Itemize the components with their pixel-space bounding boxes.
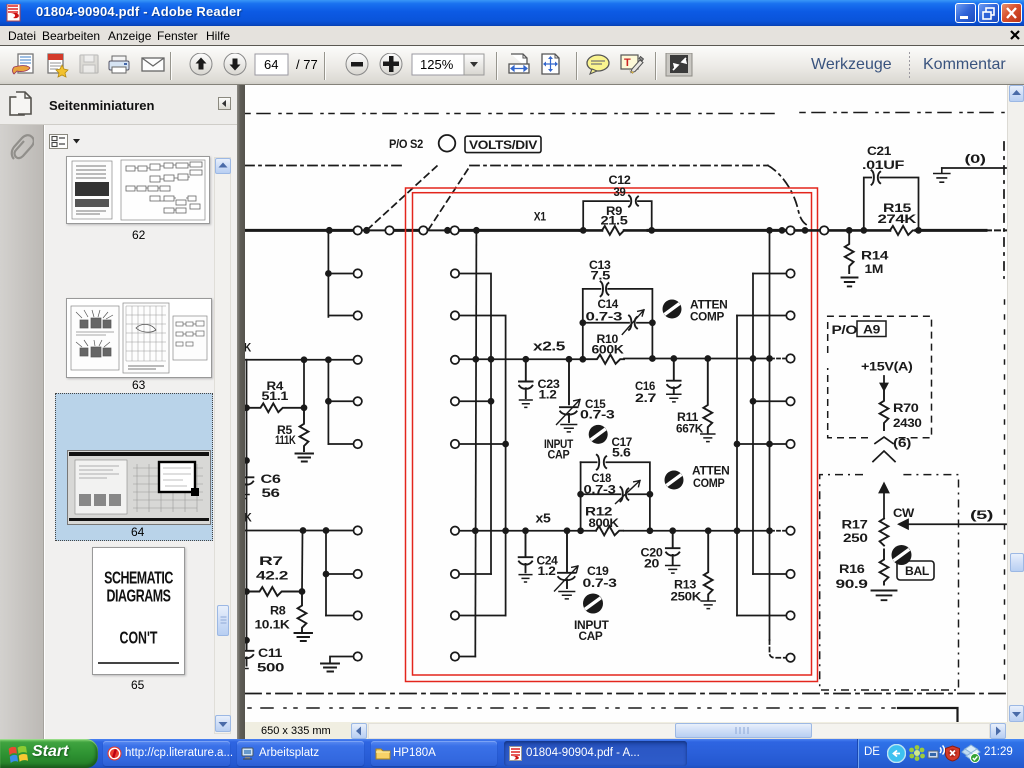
- svg-text:1M: 1M: [865, 262, 884, 276]
- email icon: [142, 58, 164, 71]
- junction x5 row at box left: [578, 528, 583, 533]
- junction C14 right: [650, 320, 655, 325]
- resistor R10: [583, 355, 624, 364]
- S2 wiper dot left: [364, 228, 369, 233]
- junction row5 rail C: [503, 442, 508, 447]
- svg-text:COMP: COMP: [693, 476, 725, 490]
- wire: row8 stub to rail C end: [459, 615, 505, 617]
- svg-text:39: 39: [614, 185, 626, 199]
- junction x5 row at RC: [735, 528, 740, 533]
- wire: bus segment through R9: [580, 229, 648, 232]
- junction C21 right on bus: [916, 228, 921, 233]
- wire: left edge rail: [246, 360, 248, 648]
- wire: ground stub to contact row9 left: [330, 657, 354, 663]
- ground below C23: [520, 400, 533, 407]
- wire: stub to contact row8 left: [326, 615, 354, 617]
- wire: RC stub row8 right: [737, 615, 786, 617]
- page field: [255, 54, 288, 75]
- resistor R7: [247, 587, 302, 596]
- ground below C20: [666, 566, 680, 574]
- wire: right rail RC: [736, 316, 738, 616]
- svg-text:R8: R8: [270, 604, 286, 618]
- thumb 65: [92, 547, 185, 675]
- switch boundary dash-dot line left: [245, 165, 402, 167]
- junction row4 at RB: [751, 399, 756, 404]
- wire: x2.5 feed row from left circuit: [245, 359, 354, 361]
- junction x2.5 row at RB: [751, 356, 756, 361]
- bottom boundary dash-dot line: [245, 693, 1006, 695]
- resistor R14: [845, 230, 854, 273]
- junction R4 row at left edge: [244, 405, 249, 410]
- svg-text:274K: 274K: [878, 212, 917, 226]
- svg-text:CAP: CAP: [548, 448, 570, 462]
- contact circle right row7: [786, 570, 794, 578]
- junction R11: [705, 356, 710, 361]
- wire: RC stub row2 right: [737, 315, 786, 317]
- wire: C14 middle branch: [583, 322, 653, 324]
- wire: rail A center: [475, 230, 476, 656]
- svg-text:250: 250: [843, 531, 868, 545]
- A9 designator box: [857, 321, 886, 337]
- S2 wiper contact circle 1 on bus: [354, 226, 362, 234]
- junction C6 at left edge: [244, 458, 249, 463]
- wire: row1 stub to rail B: [459, 274, 491, 575]
- contact circle right row4: [786, 397, 794, 405]
- wire: x5 row: [459, 530, 770, 532]
- switch S2 dashed wiper line A: [368, 165, 439, 230]
- svg-text:X1: X1: [534, 210, 546, 224]
- wire: RB stub row7 right: [753, 573, 786, 575]
- contact circle left row2: [354, 311, 362, 319]
- S2 wiper contact circle 4 on bus: [451, 226, 459, 234]
- ground below R5: [296, 454, 314, 462]
- wire: C21 parallel loop: [864, 178, 919, 231]
- zoom in: [380, 53, 402, 75]
- contact circle left row8: [354, 611, 362, 619]
- capacitor C24: [519, 531, 533, 573]
- junction x5 at rail C: [503, 528, 508, 533]
- trimmer arrow C14: [622, 310, 644, 335]
- trimmer arrow C19: [555, 566, 579, 591]
- ground below C15: [561, 425, 577, 432]
- svg-text:P/O S2: P/O S2: [389, 137, 423, 151]
- junction C19: [565, 528, 570, 533]
- top page boundary dotted line: [245, 113, 1005, 114]
- contact circle right row6: [786, 527, 794, 535]
- svg-text:600K: 600K: [592, 343, 624, 357]
- wire: bus to C21 section: [828, 229, 890, 232]
- junction R7 row at left edge: [244, 589, 249, 594]
- svg-text:COMP: COMP: [690, 310, 724, 324]
- svg-text:VOLTS/DIV: VOLTS/DIV: [469, 138, 538, 152]
- contact circle right row2: [786, 311, 794, 319]
- connector chevron 6 upper: [875, 437, 893, 444]
- ground below R13: [701, 601, 715, 609]
- resistor R9: [602, 226, 624, 235]
- variable capacitor C15: [560, 359, 578, 422]
- fit page icon: [542, 54, 559, 74]
- contact circle left row9: [354, 652, 362, 660]
- wire: x5 feed row from left circuit: [245, 530, 354, 532]
- svg-text:20: 20: [644, 557, 660, 571]
- svg-text:125%: 125%: [420, 57, 454, 72]
- svg-text:800K: 800K: [589, 516, 619, 530]
- svg-text:0.7-3: 0.7-3: [583, 576, 618, 590]
- options button: [49, 134, 68, 149]
- svg-text:C21: C21: [867, 144, 891, 158]
- variable capacitor C18: [620, 487, 628, 501]
- svg-text:10.1K: 10.1K: [255, 618, 290, 632]
- svg-text:667K: 667K: [676, 422, 703, 436]
- junction x2.5 feed at left rail: [326, 357, 331, 362]
- ground below C19: [559, 592, 575, 599]
- resistor R11: [703, 359, 712, 433]
- contact circle left row6: [354, 526, 362, 534]
- contact circle mid row3: [451, 356, 459, 364]
- junction C24: [523, 528, 528, 533]
- print icon: [109, 56, 129, 73]
- junction dot on bus: [445, 228, 450, 233]
- wire: node 5 wiper line: [899, 520, 1006, 529]
- wire: C17 top branch: [581, 462, 650, 530]
- svg-text:1.2: 1.2: [539, 388, 558, 402]
- svg-text:CAP: CAP: [579, 629, 603, 643]
- svg-text:21.5: 21.5: [601, 214, 629, 228]
- wire: RB stub row1 right: [753, 273, 786, 275]
- contact circle mid row9: [451, 652, 459, 660]
- ground for node 0: [934, 168, 950, 182]
- svg-text:x2.5: x2.5: [533, 339, 565, 354]
- contact circle right row5: [786, 440, 794, 448]
- wire: row9 stub to rail A end: [459, 656, 475, 658]
- contact circle left row4: [354, 397, 362, 405]
- dash-dot vertical right margin lower: [1004, 300, 1006, 680]
- svg-text:56: 56: [262, 486, 281, 500]
- junction C21 left on bus: [861, 228, 866, 233]
- junction x5 at rail A: [473, 528, 478, 533]
- trimmer symbol INPUT CAP x2.5: [589, 425, 608, 444]
- ground below C16: [667, 394, 681, 402]
- contact circle right row1: [786, 269, 794, 277]
- junction dots C12 loop: [581, 228, 655, 233]
- wire: bus jumper to outer contact: [795, 229, 820, 232]
- trimmer symbol INPUT CAP x5: [583, 594, 603, 614]
- wire: left rail lower segment: [327, 360, 329, 444]
- save icon (disabled): [80, 55, 98, 73]
- bottom second dotted line: [248, 707, 898, 709]
- junction: bus to left rail: [327, 228, 332, 233]
- wire: x2.5 row: [459, 358, 771, 361]
- stamp icon: [621, 55, 644, 74]
- zoom out: [346, 53, 368, 75]
- capacitor C6: [240, 461, 253, 493]
- fit width icon: [509, 54, 529, 73]
- svg-text:CW: CW: [893, 506, 915, 520]
- contact circle right row9: [786, 654, 794, 662]
- sidebar scrollbar: [214, 157, 231, 734]
- wire: stub to contact row1 left: [328, 273, 353, 275]
- selected thumb 64: [55, 393, 213, 541]
- contact circle left row1: [354, 269, 362, 277]
- wire: RC stub row5 right: [737, 443, 786, 445]
- capacitor C12: [629, 196, 638, 207]
- junction bus outer dot: [803, 228, 808, 233]
- svg-text:R70: R70: [893, 401, 919, 415]
- contact circle right row8: [786, 611, 794, 619]
- wire: left lower rail: [325, 531, 327, 616]
- fullscreen icon: [666, 53, 692, 76]
- capacitor C13: [601, 282, 609, 297]
- junction C14 left: [580, 320, 585, 325]
- wire: row7 stub to rail B end: [459, 573, 491, 575]
- svg-text:.01UF: .01UF: [862, 158, 905, 172]
- junction C20: [670, 528, 675, 533]
- contact circle right bus row: [786, 226, 794, 234]
- BAL label box: [897, 561, 934, 580]
- svg-text:(5): (5): [970, 508, 993, 522]
- resistor R13: [704, 531, 713, 600]
- ground below R14: [842, 278, 858, 287]
- wire: right rail RA: [769, 230, 771, 640]
- svg-text:R16: R16: [839, 562, 865, 576]
- resistor R4: [247, 403, 304, 412]
- svg-text:K: K: [245, 341, 251, 355]
- svg-text:P/O: P/O: [832, 323, 858, 337]
- svg-text:BAL: BAL: [905, 564, 930, 578]
- svg-text:111K: 111K: [275, 433, 296, 447]
- junction x2.5 row at box right: [650, 356, 655, 361]
- junction row4 rail B: [489, 399, 494, 404]
- resistor R8: [298, 592, 307, 632]
- wire: stub to contact row7 left: [326, 573, 354, 575]
- variable capacitor C14: [629, 316, 637, 330]
- contact circle mid row1: [451, 269, 459, 277]
- resistor R17 potentiometer: [880, 519, 889, 546]
- dashed box P/O A9: [828, 316, 932, 438]
- junction left lower rail row7: [324, 572, 329, 577]
- svg-text:(6): (6): [893, 436, 911, 450]
- contact circle mid row2: [451, 311, 459, 319]
- svg-text:T: T: [624, 57, 631, 69]
- wire: main input bus: [245, 229, 1006, 232]
- trimmer arrow C18: [616, 481, 641, 504]
- svg-text:500: 500: [257, 661, 285, 675]
- junction R13: [706, 528, 711, 533]
- wire: C18 middle branch: [581, 493, 650, 495]
- variable capacitor C19: [558, 531, 576, 588]
- switch boundary dash-dot line right: [470, 166, 810, 227]
- junction C11 at left edge: [244, 638, 249, 643]
- svg-text:5.6: 5.6: [612, 446, 631, 460]
- wire: CW arrow to R17: [880, 484, 889, 519]
- contact circle mid row4: [451, 397, 459, 405]
- trimmer symbol ATTEN COMP x2.5: [663, 300, 682, 319]
- resistor R16: [880, 550, 889, 585]
- svg-text:(0): (0): [965, 152, 986, 166]
- svg-text:250K: 250K: [671, 590, 702, 604]
- capacitor C16: [667, 359, 681, 394]
- junction left rail row1: [326, 271, 331, 276]
- svg-text:51.1: 51.1: [262, 389, 289, 403]
- wire: row2 stub to rail C: [459, 316, 505, 616]
- supply arrow down: [881, 376, 888, 390]
- wire: RB stub row4 right: [753, 400, 786, 402]
- junction R4/R5: [302, 405, 307, 410]
- svg-text:64: 64: [264, 57, 278, 72]
- svg-text:x5: x5: [536, 511, 551, 526]
- contact circle mid row5: [451, 440, 459, 448]
- capacitor C17: [597, 455, 606, 470]
- create pdf icon: [48, 54, 68, 77]
- svg-text:0K: 0K: [245, 511, 252, 525]
- junction x2.5 at rail A: [473, 357, 478, 362]
- trimmer arrow C15: [557, 400, 581, 425]
- contact circle mid row6: [451, 527, 459, 535]
- open icon: [13, 54, 34, 74]
- wire: RA dashed tail to row9 contact: [770, 640, 787, 658]
- junction x2.5 row at box left: [580, 357, 585, 362]
- junction x2.5 row at RA: [767, 356, 772, 361]
- junction x2.5 at rail B: [489, 357, 494, 362]
- wire: C13 top branch: [583, 289, 653, 359]
- wire: stub to contact row4 left: [328, 400, 353, 402]
- wire: x5 row dashed stub to contact: [771, 530, 786, 532]
- svg-text:C6: C6: [261, 472, 282, 486]
- junction row5 at RA: [767, 442, 772, 447]
- ground below R8: [295, 633, 313, 641]
- wire: right rail RB: [752, 274, 754, 575]
- svg-text:R14: R14: [861, 249, 889, 263]
- zoom level box: [412, 54, 464, 75]
- wire: C12 parallel loop: [583, 201, 652, 230]
- wire: stub to contact row2 left: [328, 315, 353, 317]
- svg-text:R7: R7: [259, 554, 283, 568]
- junction R14 on bus: [847, 228, 852, 233]
- svg-text:A9: A9: [863, 323, 881, 337]
- ground marks below C6: [240, 495, 249, 499]
- resistor R15: [890, 226, 916, 235]
- thumb 63: [66, 298, 212, 378]
- contact circle mid row8: [451, 611, 459, 619]
- svg-text:/ 77: / 77: [296, 57, 318, 72]
- contact circle left row3: [354, 356, 362, 364]
- thumb 62: [66, 156, 210, 224]
- junction x5 feed at left lower rail: [324, 528, 329, 533]
- junction R7/R8: [300, 589, 305, 594]
- svg-text:R17: R17: [842, 518, 869, 532]
- contact circle right row3: [786, 354, 794, 362]
- svg-text:0.7-3: 0.7-3: [580, 408, 615, 422]
- junction x5 row at RA: [767, 528, 772, 533]
- next section corner line bottom right: [898, 708, 958, 721]
- svg-text:7.5: 7.5: [591, 269, 611, 283]
- rotary switch S2 shaft circle: [439, 135, 456, 152]
- trimmer symbol ATTEN COMP x5: [665, 471, 684, 490]
- red highlight rectangle inner: [413, 193, 812, 675]
- wire: row5 stub to rail C: [459, 443, 505, 445]
- wire: C13/C14 box left leg: [582, 289, 584, 359]
- nav down: [224, 53, 246, 75]
- junction C18 right: [647, 492, 652, 497]
- junction RA bus: [767, 228, 772, 233]
- junction x5 feed at R7 rail: [301, 528, 306, 533]
- ground below C24: [519, 575, 532, 582]
- junction: bus to rail A: [474, 228, 479, 233]
- wire: x2.5 row dashed stub to contact: [771, 358, 786, 360]
- dash-dot vertical right margin: [1003, 142, 1005, 278]
- trimmer symbol BAL: [892, 545, 912, 565]
- contact circle left row5: [354, 440, 362, 448]
- svg-text:+15V(A): +15V(A): [861, 360, 913, 374]
- junction bus right dot: [780, 228, 785, 233]
- svg-text:1.2: 1.2: [538, 564, 557, 578]
- svg-text:2430: 2430: [893, 416, 922, 430]
- svg-text:90.9: 90.9: [836, 577, 869, 591]
- wire: C17/C18 box left leg: [580, 462, 582, 531]
- svg-text:0.7-3: 0.7-3: [586, 310, 623, 324]
- contact circle left row7: [354, 570, 362, 578]
- wire: row4 stub to rail B: [459, 400, 491, 402]
- resistor R12: [596, 526, 623, 535]
- switch S2 dashed wiper line B: [429, 166, 471, 230]
- ground marks below C11: [240, 669, 248, 673]
- contact circle mid row7: [451, 570, 459, 578]
- S2 wiper contact circle 3 on bus: [419, 226, 427, 234]
- junction x2.5 feed at R4 rail: [302, 357, 307, 362]
- svg-text:42.2: 42.2: [256, 569, 289, 583]
- connector chevron 6 lower: [873, 451, 895, 462]
- wire: x5 feed to R7: [301, 531, 304, 592]
- VOLTS/DIV label box: [465, 136, 541, 152]
- junction x5 row at box right: [647, 528, 652, 533]
- junction C16: [671, 356, 676, 361]
- svg-text:2.7: 2.7: [635, 391, 657, 405]
- resistor R5: [300, 408, 309, 451]
- junction C15: [567, 357, 572, 362]
- wire: left rail from bus: [327, 230, 329, 317]
- red highlight rectangle outer: [406, 188, 818, 682]
- ground symbol left column: [321, 664, 339, 672]
- svg-text:C11: C11: [258, 646, 283, 660]
- capacitor C21: [872, 170, 881, 184]
- svg-text:0.7-3: 0.7-3: [584, 483, 617, 497]
- junction left rail row4: [326, 399, 331, 404]
- capacitor C23: [519, 359, 533, 398]
- capacitor C11: [240, 640, 253, 665]
- dashed box lower A9 region: [820, 475, 959, 690]
- comment bubble icon: [587, 55, 609, 74]
- contact circle bus outer: [820, 226, 828, 234]
- ground below R16: [872, 591, 897, 601]
- resistor R70: [880, 390, 889, 430]
- wire: stub to contact row5 left: [328, 443, 353, 445]
- nav up: [190, 53, 212, 75]
- wire: node 0 line: [942, 167, 1006, 169]
- start button: [0, 739, 98, 768]
- ground below R11: [701, 434, 715, 442]
- junction row5 at RC: [735, 442, 740, 447]
- wire: rail row3 to R4: [303, 360, 305, 408]
- S2 wiper contact circle 2 on bus: [385, 226, 393, 234]
- capacitor C20: [666, 531, 680, 565]
- junction C18 left: [578, 492, 583, 497]
- junction C23: [523, 357, 528, 362]
